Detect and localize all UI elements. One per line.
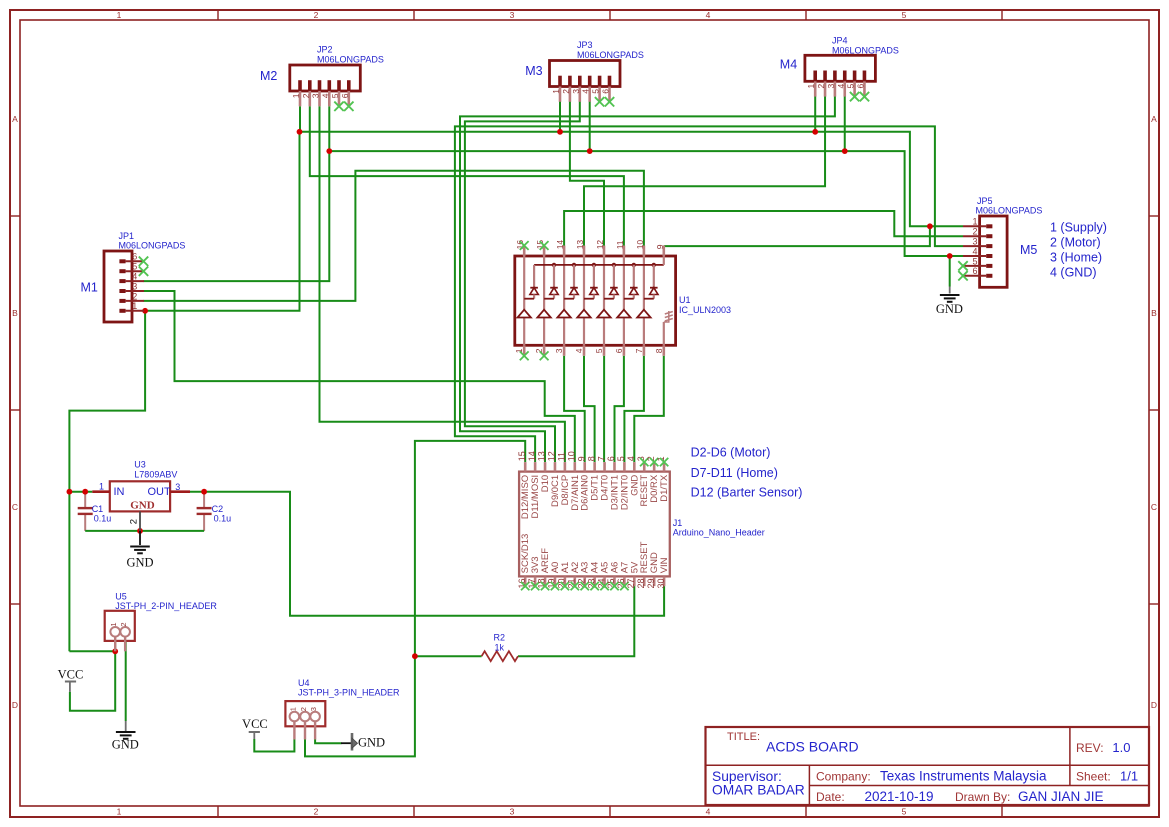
svg-text:1: 1 [109,622,118,626]
svg-text:M06LONGPADS: M06LONGPADS [832,45,899,55]
svg-text:JP3: JP3 [577,40,593,50]
svg-text:6: 6 [855,84,865,89]
svg-text:IN: IN [114,486,125,498]
svg-text:A: A [12,114,18,124]
svg-text:3: 3 [175,482,180,492]
svg-text:C: C [12,502,18,512]
svg-text:3: 3 [510,10,515,20]
svg-text:2: 2 [816,84,826,89]
svg-text:Texas Instruments Malaysia: Texas Instruments Malaysia [880,769,1047,784]
svg-text:U1: U1 [679,295,691,305]
svg-text:9: 9 [655,244,665,249]
svg-text:5: 5 [591,89,601,94]
svg-text:D7-D11 (Home): D7-D11 (Home) [691,466,778,480]
svg-text:M06LONGPADS: M06LONGPADS [577,50,644,60]
svg-text:2: 2 [132,291,137,301]
svg-text:0.1u: 0.1u [214,513,232,523]
svg-text:JST-PH_3-PIN_HEADER: JST-PH_3-PIN_HEADER [298,687,400,697]
svg-text:1: 1 [514,348,524,353]
svg-text:6: 6 [601,89,611,94]
svg-text:Date:: Date: [816,790,845,804]
svg-text:11: 11 [557,452,567,461]
svg-text:30: 30 [656,579,666,589]
svg-text:ACDS BOARD: ACDS BOARD [766,738,859,754]
svg-text:GND: GND [130,500,155,512]
svg-text:5: 5 [594,348,604,353]
svg-text:JST-PH_2-PIN_HEADER: JST-PH_2-PIN_HEADER [115,601,217,611]
svg-text:15: 15 [517,451,527,461]
svg-text:1: 1 [288,707,297,711]
svg-text:M2: M2 [260,69,277,83]
svg-text:2: 2 [561,89,571,94]
svg-text:GND: GND [936,302,963,316]
svg-text:4: 4 [626,456,636,461]
svg-text:M06LONGPADS: M06LONGPADS [119,241,186,251]
svg-text:7: 7 [634,348,644,353]
svg-text:2: 2 [299,707,308,711]
svg-text:11: 11 [615,240,625,249]
svg-text:D: D [12,700,18,710]
svg-text:B: B [1151,308,1157,318]
svg-text:R2: R2 [494,633,506,643]
svg-text:4: 4 [706,10,711,20]
svg-text:2: 2 [314,807,319,817]
svg-text:7: 7 [596,456,606,461]
svg-text:TITLE:: TITLE: [727,731,760,743]
svg-text:GND: GND [358,735,385,749]
svg-text:L7809ABV: L7809ABV [134,470,177,480]
svg-text:D1/TX: D1/TX [659,474,670,502]
svg-text:2: 2 [314,10,319,20]
svg-text:6: 6 [606,456,616,461]
svg-text:1: 1 [972,217,977,227]
svg-text:D: D [1151,700,1157,710]
svg-text:D2-D6 (Motor): D2-D6 (Motor) [691,446,771,460]
svg-text:9: 9 [576,456,586,461]
svg-text:M4: M4 [780,58,797,72]
svg-text:Sheet:: Sheet: [1076,770,1111,784]
svg-text:1.0: 1.0 [1112,740,1130,755]
svg-text:REV:: REV: [1076,741,1104,755]
svg-text:U3: U3 [134,460,146,470]
svg-text:6: 6 [340,93,350,98]
svg-text:4: 4 [581,89,591,94]
svg-text:3: 3 [311,93,321,98]
svg-text:GAN JIAN JIE: GAN JIAN JIE [1018,789,1104,804]
svg-text:VIN: VIN [659,557,670,573]
svg-text:0.1u: 0.1u [94,513,112,523]
svg-text:14: 14 [527,451,537,461]
svg-text:Arduino_Nano_Header: Arduino_Nano_Header [673,528,765,538]
svg-text:5: 5 [902,807,907,817]
svg-text:2: 2 [972,227,977,237]
svg-text:2021-10-19: 2021-10-19 [865,789,934,804]
svg-text:1/1: 1/1 [1120,769,1138,784]
svg-text:4 (GND): 4 (GND) [1050,266,1097,280]
svg-text:6: 6 [132,252,137,262]
svg-text:4: 4 [706,807,711,817]
svg-text:1: 1 [117,10,122,20]
svg-text:27: 27 [626,579,636,589]
svg-text:4: 4 [574,348,584,353]
svg-text:6: 6 [972,266,977,276]
svg-text:3: 3 [132,281,137,291]
svg-text:4: 4 [972,246,977,256]
svg-text:8: 8 [654,348,664,353]
svg-text:A: A [1151,114,1157,124]
svg-text:3 (Home): 3 (Home) [1050,251,1102,265]
svg-text:1 (Supply): 1 (Supply) [1050,221,1107,235]
svg-text:J1: J1 [673,518,683,528]
svg-text:JP5: JP5 [977,196,993,206]
svg-text:3: 3 [571,89,581,94]
svg-text:8: 8 [586,456,596,461]
svg-text:2: 2 [534,348,544,353]
svg-text:GND: GND [112,737,139,751]
svg-text:M3: M3 [525,64,542,78]
svg-text:JP4: JP4 [832,36,848,46]
svg-text:5: 5 [902,10,907,20]
svg-text:5: 5 [846,84,856,89]
svg-text:3: 3 [972,237,977,247]
svg-text:M5: M5 [1020,243,1037,257]
svg-text:3: 3 [826,84,836,89]
svg-text:1: 1 [117,807,122,817]
svg-text:GND: GND [126,556,153,570]
svg-text:12: 12 [547,451,557,461]
svg-text:VCC: VCC [242,717,268,731]
svg-text:1: 1 [551,89,561,94]
svg-text:3: 3 [554,348,564,353]
svg-text:M06LONGPADS: M06LONGPADS [317,54,384,64]
svg-text:IC_ULN2003: IC_ULN2003 [679,305,731,315]
svg-text:D12 (Barter Sensor): D12 (Barter Sensor) [691,486,803,500]
svg-text:4: 4 [836,84,846,89]
svg-text:1: 1 [806,84,816,89]
svg-text:2: 2 [128,519,139,524]
svg-text:13: 13 [537,451,547,461]
svg-text:2: 2 [119,622,128,626]
svg-text:10: 10 [567,451,577,461]
svg-text:10: 10 [635,240,645,250]
svg-text:29: 29 [646,579,656,589]
svg-text:13: 13 [575,240,585,250]
svg-text:1k: 1k [495,643,505,653]
svg-text:14: 14 [555,240,565,250]
svg-text:12: 12 [595,240,605,250]
svg-text:3: 3 [309,707,318,711]
svg-text:VCC: VCC [58,667,84,681]
svg-text:5: 5 [132,262,137,272]
svg-text:JP2: JP2 [317,45,333,55]
svg-text:5: 5 [330,93,340,98]
svg-text:Company:: Company: [816,770,871,784]
svg-text:C: C [1151,502,1157,512]
svg-text:28: 28 [636,579,646,589]
svg-text:Drawn By:: Drawn By: [955,790,1010,804]
svg-text:OMAR BADAR: OMAR BADAR [712,783,805,798]
svg-text:JP1: JP1 [119,231,135,241]
svg-text:1: 1 [132,301,137,311]
svg-text:4: 4 [320,93,330,98]
svg-text:3: 3 [510,807,515,817]
svg-text:B: B [12,308,18,318]
svg-text:4: 4 [132,272,137,282]
svg-text:5: 5 [616,456,626,461]
svg-text:1: 1 [291,93,301,98]
svg-text:2 (Motor): 2 (Motor) [1050,236,1101,250]
svg-text:5: 5 [972,256,977,266]
svg-text:M1: M1 [81,281,98,295]
svg-text:2: 2 [301,93,311,98]
svg-text:M06LONGPADS: M06LONGPADS [976,206,1043,216]
svg-text:6: 6 [614,348,624,353]
svg-text:OUT: OUT [148,486,172,498]
svg-text:1: 1 [99,482,104,492]
